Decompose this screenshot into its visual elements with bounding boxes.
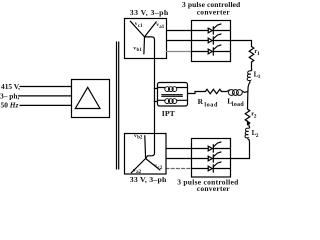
label source 415V 3-ph 50Hz	[0, 82, 20, 109]
resistor R load	[205, 89, 221, 93]
svg-text:33 V, 3–ph: 33 V, 3–ph	[130, 175, 167, 184]
label v_a1	[156, 22, 165, 30]
wire input phase A	[20, 86, 72, 88]
thyristor T3	[192, 45, 231, 55]
wire input phase B	[19, 95, 72, 97]
svg-text:1: 1	[258, 74, 261, 80]
svg-text:load: load	[232, 101, 245, 108]
svg-text:b2: b2	[137, 136, 143, 141]
neutral wire top wye to bottom wye past IPT	[145, 37, 155, 159]
wire L2 to converter bottom output	[231, 140, 250, 159]
wire top phase a to converter	[167, 30, 192, 32]
svg-text:c2: c2	[158, 166, 163, 171]
inductor L2	[245, 127, 250, 140]
svg-text:a1: a1	[159, 25, 165, 30]
svg-text:b1: b1	[137, 48, 143, 53]
svg-text:R: R	[198, 97, 204, 106]
wire	[251, 62, 253, 69]
svg-text:1: 1	[257, 51, 260, 57]
label v_b1	[133, 46, 142, 54]
svg-text:3– ph,: 3– ph,	[0, 92, 19, 101]
wire IPT bottom terminal to neutral line	[154, 101, 157, 103]
wire L load to rail node	[244, 91, 248, 94]
thyristor T5	[192, 152, 231, 162]
svg-text:c1: c1	[138, 24, 143, 29]
wire L1 to load node	[248, 82, 250, 91]
IPT core	[162, 94, 183, 96]
IPT box	[158, 83, 188, 107]
thyristor T2	[192, 34, 231, 44]
label L1	[254, 70, 261, 80]
label r1	[254, 48, 260, 57]
label 3 pulse controlled converter bottom	[177, 177, 239, 193]
label v_a2	[133, 168, 142, 176]
label r2	[251, 110, 257, 119]
secondary winding box bottom	[125, 134, 167, 175]
svg-text:2: 2	[254, 113, 257, 119]
wire bottom phase c to converter (faint)	[166, 168, 192, 170]
delta winding symbol	[75, 87, 100, 108]
wire top phase c to converter	[167, 51, 192, 53]
label R load	[198, 97, 218, 109]
transformer primary box	[72, 80, 110, 118]
wire	[248, 121, 250, 127]
svg-text:2: 2	[256, 133, 259, 139]
resistor r1	[249, 47, 254, 63]
wire IPT centre tap to load	[188, 92, 206, 94]
wire input phase C	[20, 104, 72, 106]
wire bottom phase a to converter	[166, 148, 192, 150]
wye winding bottom	[131, 136, 160, 173]
thyristor T4	[192, 142, 231, 152]
inductor L load	[227, 90, 244, 96]
svg-text:IPT: IPT	[162, 109, 176, 118]
svg-text:converter: converter	[197, 184, 230, 193]
label v_c2	[154, 163, 162, 171]
label 3 pulse controlled converter top	[182, 0, 241, 17]
wire IPT top terminal to neutral line	[154, 88, 157, 90]
wire bottom phase b to converter	[166, 158, 192, 160]
label L load	[227, 97, 244, 109]
resistor r2	[245, 109, 250, 125]
svg-text:50 Hz: 50 Hz	[1, 101, 19, 110]
thyristor T1	[192, 24, 231, 34]
wye winding top	[130, 21, 156, 54]
wire top phase b to converter	[167, 40, 192, 42]
svg-text:load: load	[204, 102, 218, 109]
IPT winding bottom	[158, 99, 188, 104]
converter box bottom	[192, 139, 231, 178]
transformer core	[116, 42, 118, 169]
label L2	[252, 129, 259, 139]
secondary winding box top	[125, 19, 167, 59]
svg-text:33 V, 3–ph: 33 V, 3–ph	[130, 8, 169, 17]
inductor L1	[247, 69, 252, 82]
converter box top	[192, 21, 231, 62]
wire load node down to r2	[247, 92, 249, 110]
wire	[221, 91, 227, 93]
label v_c1	[135, 21, 143, 29]
label v_b2	[134, 133, 143, 141]
thyristor T6	[192, 162, 231, 172]
IPT winding top	[158, 87, 188, 92]
svg-text:415 V,: 415 V,	[1, 82, 20, 91]
wire converter top output to rail	[231, 41, 252, 47]
svg-text:converter: converter	[197, 8, 231, 17]
